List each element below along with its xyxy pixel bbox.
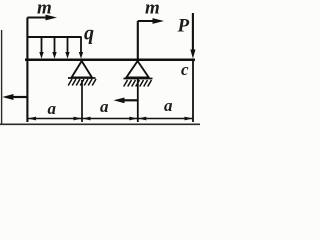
dimension line segment 3 (a) [138, 117, 193, 121]
svg-text:a: a [164, 96, 173, 115]
distributed load q top line [27, 36, 82, 38]
svg-text:q: q [84, 23, 94, 45]
frame left border [1, 30, 3, 124]
support B extension line down [137, 79, 139, 123]
svg-text:m: m [145, 0, 160, 19]
q load arrow 4 [79, 37, 83, 59]
q load arrow 3 [65, 37, 69, 59]
support B ground line [124, 78, 153, 80]
dimension line segment 1 (a) [27, 117, 82, 121]
horizontal force arrow at left end (points left) [2, 94, 27, 100]
support A hatching [68, 79, 96, 86]
support A triangle [72, 61, 93, 78]
svg-text:a: a [100, 97, 109, 116]
svg-text:a: a [48, 99, 57, 118]
right end extension line [192, 61, 194, 122]
svg-text:c: c [181, 60, 189, 79]
support B triangle [126, 61, 149, 78]
beam [25, 58, 195, 61]
q load arrow 1 [39, 37, 43, 59]
dimension line segment 2 (a) [82, 117, 138, 121]
svg-text:m: m [37, 0, 52, 19]
moment m arrow (right) [138, 18, 164, 24]
left end bracket (vertical arm at beam left end) [26, 18, 28, 123]
frame bottom border [0, 123, 200, 125]
moment m arrow (left) [27, 15, 57, 21]
horizontal force arrow at support B (points left) [114, 98, 138, 104]
support B hatching [124, 80, 152, 87]
moment arm at support B (vertical above beam) [137, 21, 139, 60]
support A extension line down [81, 80, 83, 122]
force P arrow (down) [190, 13, 195, 59]
support A ground line [68, 77, 96, 79]
svg-text:P: P [177, 16, 190, 37]
q load arrow 2 [52, 37, 56, 59]
